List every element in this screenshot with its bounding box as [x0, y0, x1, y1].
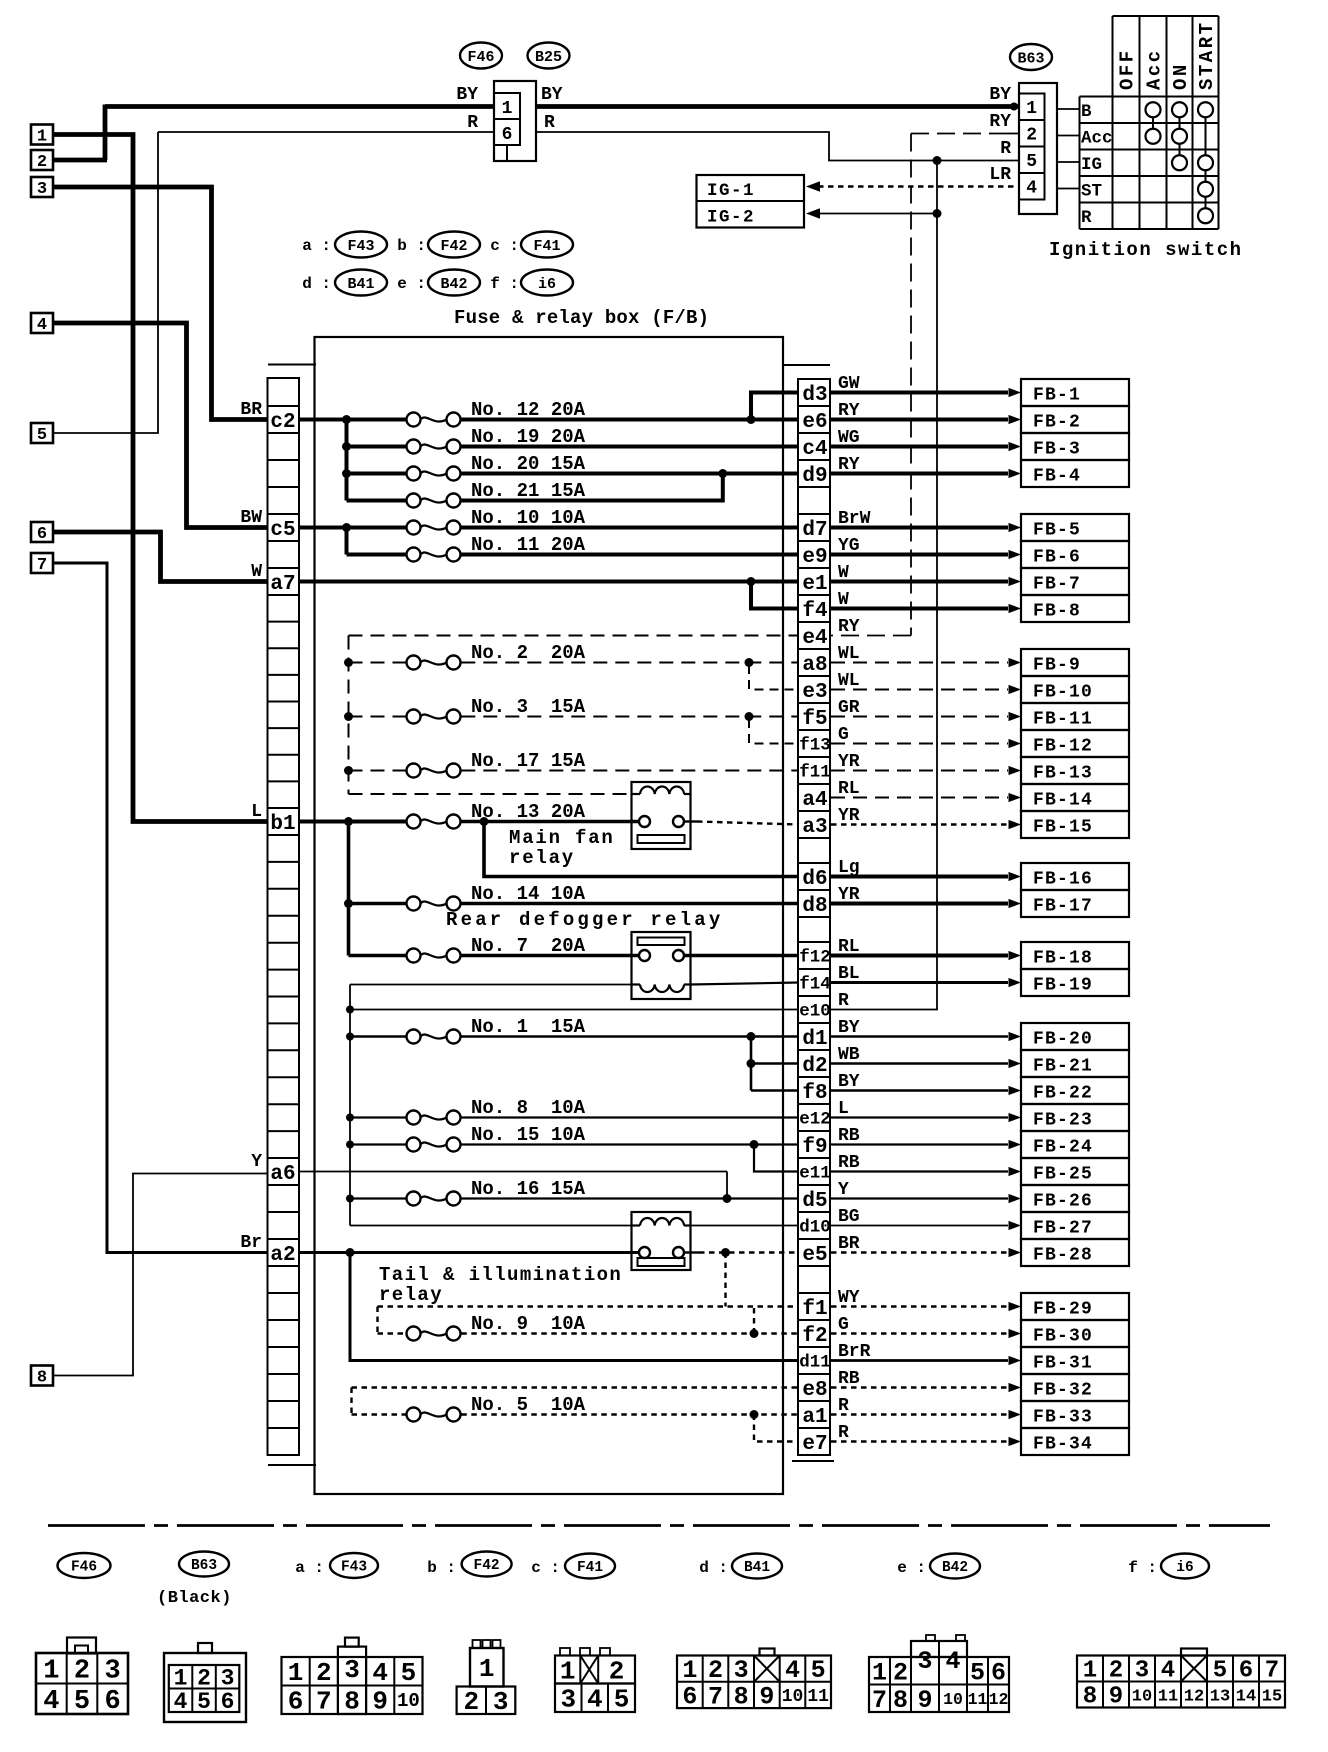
IG-1 IG-2 box: [697, 175, 805, 228]
svg-text:START: START: [1196, 20, 1218, 90]
svg-text:e10: e10: [799, 1002, 831, 1022]
svg-text:FB-29: FB-29: [1033, 1300, 1093, 1320]
svg-text:c4: c4: [802, 438, 827, 461]
svg-text:FB-3: FB-3: [1033, 440, 1081, 460]
junction node R ignition feed: [933, 156, 942, 165]
wire e10 R into bus: [350, 1009, 799, 1011]
connector label B63: [1010, 44, 1052, 70]
wire RL from a4 to FB-14: [831, 797, 1008, 799]
svg-text:d5: d5: [802, 1190, 827, 1213]
box FB-24: [1021, 1131, 1129, 1158]
svg-text:W: W: [838, 590, 849, 610]
svg-text:RY: RY: [838, 455, 860, 475]
svg-text:FB-20: FB-20: [1033, 1030, 1093, 1050]
svg-text:c :: c :: [490, 237, 519, 255]
svg-text:F41: F41: [577, 1560, 603, 1576]
svg-text:YG: YG: [838, 536, 860, 556]
svg-text:e12: e12: [799, 1110, 831, 1130]
svg-text:FB-34: FB-34: [1033, 1435, 1093, 1455]
svg-text:BG: BG: [838, 1207, 860, 1227]
svg-text:9: 9: [1109, 1684, 1123, 1711]
svg-text:8: 8: [734, 1682, 749, 1711]
box FB-27: [1021, 1212, 1129, 1239]
svg-text:f13: f13: [799, 736, 831, 756]
junction dot BY at pin1: [1010, 103, 1018, 111]
box FB-8: [1021, 595, 1129, 622]
junction dot IG-2 feed: [933, 209, 942, 218]
bottom connector label F46: [58, 1553, 111, 1578]
svg-text:d7: d7: [802, 519, 827, 542]
svg-text:F42: F42: [474, 1558, 500, 1574]
svg-text:FB-2: FB-2: [1033, 413, 1081, 433]
svg-text:FB-10: FB-10: [1033, 683, 1093, 703]
svg-text:d :: d :: [699, 1559, 728, 1577]
wire BrW from d7 to FB-5: [831, 526, 1008, 530]
svg-text:WG: WG: [838, 428, 860, 448]
box FB-9: [1021, 649, 1129, 676]
svg-text:6: 6: [991, 1658, 1006, 1687]
svg-text:2: 2: [609, 1656, 625, 1686]
box FB-21: [1021, 1050, 1129, 1077]
svg-text:IG: IG: [1081, 155, 1102, 175]
left connector strip: [268, 378, 300, 1455]
svg-text:ST: ST: [1081, 181, 1102, 201]
svg-text:Br: Br: [240, 1233, 262, 1253]
svg-text:FB-21: FB-21: [1033, 1057, 1093, 1077]
svg-text:R: R: [838, 1396, 849, 1416]
svg-text:5: 5: [74, 1687, 90, 1717]
terminal box 8: [31, 1366, 53, 1386]
wire Lg from d6 to FB-16: [831, 875, 1008, 879]
svg-text:13: 13: [1210, 1687, 1230, 1706]
svg-text:c2: c2: [270, 411, 295, 434]
wire box6 to W a7: [53, 532, 268, 582]
No.9 circuit dashed loop: [378, 1305, 800, 1307]
fuse No.5 10A: [407, 1408, 421, 1422]
svg-text:G: G: [838, 1315, 849, 1335]
tail and illumination relay U3: [632, 1212, 691, 1270]
svg-text:6: 6: [37, 525, 47, 544]
svg-text:G: G: [838, 725, 849, 745]
svg-text:RL: RL: [838, 779, 860, 799]
svg-text:GW: GW: [838, 374, 860, 394]
svg-text:2: 2: [708, 1656, 723, 1685]
box FB-28: [1021, 1239, 1129, 1266]
box FB-11: [1021, 703, 1129, 730]
svg-text:FB-31: FB-31: [1033, 1354, 1093, 1374]
wire WL from e3 to FB-10: [831, 689, 1008, 691]
svg-text:4: 4: [174, 1689, 188, 1715]
svg-text:FB-4: FB-4: [1033, 467, 1081, 487]
wire BG from d10 to FB-27: [831, 1225, 1008, 1227]
svg-text:4: 4: [43, 1687, 59, 1717]
wire R to connector: [158, 131, 494, 133]
wire No.17 output to f11: [461, 770, 799, 772]
ignition switch table: [1079, 97, 1081, 230]
svg-text:12: 12: [989, 1690, 1009, 1709]
svg-text:a7: a7: [270, 573, 295, 596]
wire ignition bus to tail relay coil: [350, 1225, 632, 1227]
svg-text:8: 8: [344, 1687, 360, 1717]
svg-text:4: 4: [587, 1685, 603, 1715]
wire box2 horizontal: [53, 158, 107, 163]
svg-text:FB-22: FB-22: [1033, 1084, 1093, 1104]
svg-text:FB-7: FB-7: [1033, 575, 1081, 595]
svg-text:7: 7: [1265, 1658, 1279, 1685]
svg-text:IG-2: IG-2: [707, 208, 755, 228]
wire LR dashed arrow to IG-1: [818, 185, 1019, 187]
svg-text:f5: f5: [802, 708, 827, 731]
svg-text:Ignition switch: Ignition switch: [1049, 239, 1243, 261]
svg-text:e8: e8: [802, 1379, 827, 1402]
svg-text:B63: B63: [191, 1558, 217, 1574]
svg-text:LR: LR: [989, 165, 1011, 185]
svg-text:d2: d2: [802, 1055, 827, 1078]
svg-text:8: 8: [893, 1686, 908, 1715]
svg-text:F43: F43: [347, 238, 374, 255]
svg-text:RL: RL: [838, 937, 860, 957]
terminal box 5: [31, 423, 53, 443]
svg-text:(Black): (Black): [157, 1589, 232, 1608]
wire No.5 output to a1 e7: [461, 1413, 799, 1415]
svg-text:BL: BL: [838, 964, 860, 984]
wire No.19 output to c4: [461, 445, 799, 449]
svg-text:11: 11: [807, 1687, 829, 1707]
svg-text:1: 1: [872, 1658, 887, 1687]
box FB-25: [1021, 1158, 1129, 1185]
svg-text:1: 1: [560, 1656, 576, 1686]
box FB-14: [1021, 784, 1129, 811]
wire BY connector to B63 pin1: [536, 104, 1019, 109]
dashed feed from e4: [349, 635, 800, 637]
svg-text:3: 3: [917, 1647, 932, 1676]
svg-text:FB-11: FB-11: [1033, 710, 1093, 730]
svg-text:2: 2: [463, 1687, 479, 1717]
svg-text:4: 4: [37, 316, 47, 335]
svg-text:3: 3: [1135, 1658, 1149, 1685]
svg-text:14: 14: [1236, 1687, 1256, 1706]
svg-text:5: 5: [970, 1658, 985, 1687]
svg-text:FB-27: FB-27: [1033, 1219, 1093, 1239]
svg-text:2: 2: [893, 1658, 908, 1687]
svg-text:5: 5: [811, 1656, 826, 1685]
wire WY from f1 to FB-29: [831, 1305, 1008, 1307]
svg-text:5: 5: [401, 1658, 417, 1688]
svg-text:8: 8: [37, 1369, 47, 1388]
wire No.14 output to d8: [461, 902, 799, 906]
svg-text:FB-15: FB-15: [1033, 818, 1093, 838]
box FB-29: [1021, 1293, 1129, 1320]
svg-text:2: 2: [74, 1656, 90, 1686]
svg-text:1: 1: [502, 99, 513, 119]
svg-text:3: 3: [221, 1666, 235, 1692]
wire No.16 output to d5: [461, 1197, 799, 1199]
svg-text:FB-9: FB-9: [1033, 656, 1081, 676]
svg-text:L: L: [251, 802, 262, 822]
svg-text:FB-6: FB-6: [1033, 548, 1081, 568]
ignition R bus x350: [349, 985, 351, 1226]
wire No.2 output to a8 and e3: [461, 662, 799, 664]
svg-text:FB-32: FB-32: [1033, 1381, 1093, 1401]
svg-text:FB-13: FB-13: [1033, 764, 1093, 784]
svg-text:1: 1: [37, 128, 47, 147]
stub pin2 to table: [1057, 135, 1080, 137]
svg-text:a :: a :: [295, 1559, 324, 1577]
svg-text:1: 1: [1083, 1658, 1097, 1685]
svg-text:d6: d6: [802, 868, 827, 891]
svg-text:Tail & illumination: Tail & illumination: [379, 1264, 622, 1286]
svg-text:No. 1 15A: No. 1 15A: [471, 1016, 586, 1038]
wire No.11 output to e9: [461, 553, 799, 557]
svg-text:2: 2: [316, 1658, 332, 1688]
svg-text:4: 4: [1026, 179, 1037, 199]
svg-text:B63: B63: [1017, 50, 1044, 67]
svg-text:f1: f1: [802, 1298, 827, 1321]
bus b1 to No.7: [347, 904, 351, 956]
wire tail relay contact dashed to e5: [684, 1251, 699, 1253]
svg-text:e11: e11: [799, 1164, 831, 1184]
svg-text:5: 5: [37, 426, 47, 445]
fuse No.13 20A: [407, 815, 421, 829]
bus from b1: [299, 820, 406, 824]
svg-text:7: 7: [872, 1686, 887, 1715]
terminal box 6: [31, 522, 53, 542]
wire RY from d9 to FB-4: [831, 472, 1008, 476]
wire R connector to B63 pin5: [536, 132, 1019, 161]
svg-text:a8: a8: [802, 654, 827, 677]
wire RY from e6 to FB-2: [831, 418, 1008, 422]
pinout connector B41: [677, 1656, 831, 1709]
svg-text:a4: a4: [802, 789, 827, 812]
svg-text:6: 6: [1239, 1658, 1253, 1685]
svg-text:9: 9: [372, 1687, 388, 1717]
svg-text:6: 6: [105, 1687, 121, 1717]
svg-text:d1: d1: [802, 1028, 827, 1051]
svg-text:ON: ON: [1170, 62, 1192, 90]
svg-text:4: 4: [1161, 1658, 1175, 1685]
wire box1 to L vertical: [53, 135, 268, 822]
svg-text:d9: d9: [802, 465, 827, 488]
box FB-13: [1021, 757, 1129, 784]
fuse No.1 15A: [346, 1033, 354, 1041]
wire relay contact to a3 dashed: [684, 820, 697, 822]
svg-text:11: 11: [968, 1690, 988, 1709]
wire RB from e11 to FB-25: [831, 1170, 1008, 1172]
svg-text:f2: f2: [802, 1325, 827, 1348]
svg-text:7: 7: [708, 1682, 723, 1711]
svg-text:FB-14: FB-14: [1033, 791, 1093, 811]
box FB-30: [1021, 1320, 1129, 1347]
box FB-34: [1021, 1428, 1129, 1455]
svg-text:BW: BW: [240, 508, 262, 528]
wire Y from d5 to FB-26: [831, 1197, 1008, 1199]
svg-text:a1: a1: [802, 1406, 827, 1429]
wire BY from d1 to FB-20: [831, 1035, 1008, 1038]
box FB-10: [1021, 676, 1129, 703]
svg-text:F43: F43: [341, 1560, 367, 1576]
wire RB from f9 to FB-24: [831, 1143, 1008, 1145]
terminal box 1: [31, 125, 53, 145]
svg-text:a2: a2: [270, 1244, 295, 1267]
svg-text:FB-24: FB-24: [1033, 1138, 1093, 1158]
dashed branch to No.9 circuit: [724, 1253, 726, 1307]
wire WG from c4 to FB-3: [831, 445, 1008, 449]
wire YR from d8 to FB-17: [831, 902, 1008, 906]
svg-text:15: 15: [1262, 1687, 1282, 1706]
box FB-1: [1021, 379, 1129, 406]
fuse No.15 10A: [346, 1141, 354, 1149]
svg-text:1: 1: [479, 1654, 495, 1684]
fuse No.14 10A: [344, 899, 353, 908]
svg-text:RB: RB: [838, 1153, 860, 1173]
svg-text:6: 6: [502, 125, 513, 145]
svg-text:YR: YR: [838, 752, 860, 772]
terminal box 4: [31, 313, 53, 333]
svg-text:8: 8: [1083, 1684, 1097, 1711]
main fan relay U1: [632, 782, 691, 849]
wire No.8 output to e12: [461, 1116, 799, 1118]
svg-text:1: 1: [682, 1656, 697, 1685]
svg-text:f12: f12: [799, 948, 831, 968]
fuse No.9 10A: [407, 1327, 421, 1341]
svg-text:RB: RB: [838, 1126, 860, 1146]
svg-text:e3: e3: [802, 681, 827, 704]
svg-text:3: 3: [344, 1655, 360, 1685]
svg-text:Acc: Acc: [1081, 128, 1113, 148]
terminal box 3: [31, 177, 53, 197]
wire YG from e9 to FB-6: [831, 553, 1008, 557]
svg-text:d3: d3: [802, 384, 827, 407]
wire RY pin2 dashed to e4: [911, 133, 1005, 135]
wire W from e1 to FB-7: [831, 580, 1008, 584]
svg-text:RY: RY: [989, 112, 1011, 132]
svg-text:GR: GR: [838, 698, 860, 718]
svg-text:Lg: Lg: [838, 858, 860, 878]
svg-text:BY: BY: [541, 85, 563, 105]
svg-text:11: 11: [1158, 1687, 1178, 1706]
svg-text:FB-1: FB-1: [1033, 386, 1081, 406]
svg-text:F42: F42: [440, 238, 467, 255]
svg-text:R: R: [838, 991, 849, 1011]
svg-text:FB-25: FB-25: [1033, 1165, 1093, 1185]
svg-text:YR: YR: [838, 806, 860, 826]
svg-text:i6: i6: [1176, 1560, 1193, 1576]
pinout connector i6: [1077, 1656, 1285, 1708]
wire tail relay coil to d10: [691, 1225, 800, 1227]
svg-text:No. 17 15A: No. 17 15A: [471, 750, 586, 772]
svg-text:d11: d11: [799, 1353, 831, 1373]
dashed feed to main fan relay coil: [349, 793, 632, 795]
box FB-20: [1021, 1023, 1129, 1050]
svg-text:5: 5: [614, 1685, 630, 1715]
box FB-16: [1021, 863, 1129, 890]
svg-text:Rear defogger relay: Rear defogger relay: [446, 909, 723, 931]
svg-text:e :: e :: [397, 275, 426, 293]
box FB-31: [1021, 1347, 1129, 1374]
svg-text:1: 1: [1026, 99, 1037, 119]
svg-text:10: 10: [397, 1690, 420, 1712]
bus from c2: [299, 418, 406, 422]
svg-text:L: L: [838, 1099, 849, 1119]
svg-text:f :: f :: [1128, 1559, 1157, 1577]
svg-text:4: 4: [945, 1647, 960, 1676]
wire No.21 output joins d9: [461, 474, 723, 501]
wire BrR from d11 to FB-31: [831, 1359, 1008, 1362]
stub pin1 to table: [1057, 108, 1080, 110]
svg-text:F46: F46: [71, 1560, 97, 1576]
svg-text:F46: F46: [467, 49, 494, 66]
svg-text:10: 10: [1132, 1687, 1152, 1706]
svg-text:2: 2: [1109, 1658, 1123, 1685]
svg-text:3: 3: [37, 180, 47, 199]
svg-text:2: 2: [37, 153, 47, 172]
fuse No.7 20A: [349, 954, 406, 958]
svg-text:d :: d :: [302, 275, 331, 293]
wire No.15 output to f9 e11: [461, 1143, 799, 1145]
wire YR from a3 to FB-15: [831, 823, 1008, 825]
box FB-33: [1021, 1401, 1129, 1428]
svg-text:a :: a :: [302, 237, 331, 255]
wire No.20 output to d9: [461, 472, 799, 476]
svg-text:No. 16 15A: No. 16 15A: [471, 1178, 586, 1200]
svg-text:B42: B42: [440, 276, 467, 293]
wire WL from a8 to FB-9: [831, 662, 1008, 664]
svg-text:RY: RY: [838, 401, 860, 421]
svg-text:9: 9: [917, 1686, 932, 1715]
terminal box 2: [31, 150, 53, 170]
wire No.10 output to d7: [461, 526, 799, 530]
wire YR from f11 to FB-13: [831, 770, 1008, 772]
wire box3 to BR c2: [53, 187, 268, 420]
svg-text:f :: f :: [490, 275, 519, 293]
svg-text:W: W: [838, 563, 849, 583]
wire BY from f8 to FB-22: [831, 1089, 1008, 1092]
fuse No.19 20A: [347, 445, 406, 449]
right connector strip: [798, 379, 830, 1455]
svg-text:FB-16: FB-16: [1033, 870, 1093, 890]
fuse No.20 15A: [347, 472, 406, 476]
wire WB from d2 to FB-21: [831, 1062, 1008, 1065]
wire No.12 output to e6 and d3: [461, 418, 799, 422]
wire No.1 output to d1 d2 f8: [461, 1035, 799, 1038]
svg-text:Y: Y: [251, 1152, 262, 1172]
wire Br a2 to tail relay: [299, 1251, 639, 1254]
svg-text:B: B: [1081, 102, 1092, 122]
svg-text:6: 6: [221, 1689, 235, 1715]
svg-text:f11: f11: [799, 763, 831, 783]
wire G from f2 to FB-30: [831, 1332, 1008, 1334]
fuse No.16 15A: [346, 1195, 354, 1203]
wire G from f13 to FB-12: [831, 743, 1008, 745]
fuse No.2 20A dashed: [344, 658, 353, 667]
wire box8 to Y a6: [54, 1174, 268, 1376]
pinout connector F46: [36, 1653, 128, 1714]
wire Y a6 joins d5: [299, 1171, 727, 1173]
svg-text:e5: e5: [802, 1244, 827, 1267]
section divider line: [48, 1524, 1270, 1527]
svg-text:R: R: [544, 113, 555, 133]
svg-text:No. 2 20A: No. 2 20A: [471, 642, 586, 664]
svg-text:YR: YR: [838, 885, 860, 905]
box FB-3: [1021, 433, 1129, 460]
fuse No.11 20A: [347, 553, 406, 557]
svg-text:5: 5: [1213, 1658, 1227, 1685]
svg-text:FB-5: FB-5: [1033, 521, 1081, 541]
svg-text:W: W: [251, 562, 262, 582]
wire BR from e5 to FB-28: [831, 1251, 1008, 1253]
svg-text:FB-18: FB-18: [1033, 949, 1093, 969]
svg-text:R: R: [1000, 139, 1011, 159]
